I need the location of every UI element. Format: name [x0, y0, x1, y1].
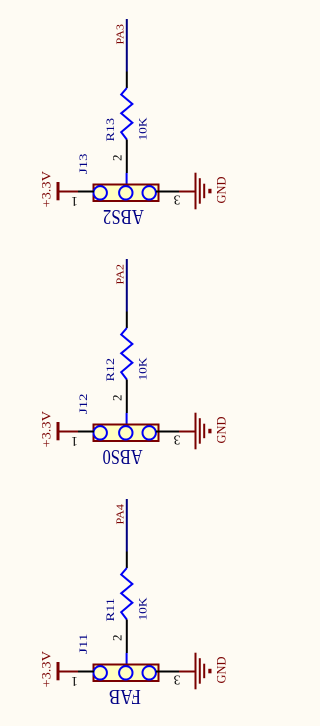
connector name ABS2 — [103, 205, 144, 229]
svg-text:R12: R12 — [103, 358, 117, 382]
resistor designator R11 — [103, 598, 117, 622]
svg-text:+3.3V: +3.3V — [39, 650, 54, 687]
svg-text:FAB: FAB — [109, 685, 141, 709]
pin number 1 — [71, 674, 78, 689]
svg-text:GND: GND — [214, 177, 229, 204]
ground net label GND — [214, 657, 229, 684]
svg-text:2: 2 — [110, 635, 125, 642]
wire J13 pin 3 to GND — [156, 191, 179, 193]
power port +3.3V label — [39, 170, 54, 207]
ground bar 2 — [199, 178, 201, 204]
power port +3.3V bar — [57, 662, 60, 680]
connector J11 body — [94, 665, 159, 682]
power port +3.3V label — [39, 410, 54, 447]
svg-text:3: 3 — [173, 192, 180, 207]
svg-text:10K: 10K — [136, 357, 150, 380]
connector name ABS0 — [103, 445, 143, 469]
power port +3.3V stub — [58, 431, 78, 433]
pin number 2 — [110, 155, 125, 162]
connector J13 pin 2 stub — [126, 173, 128, 186]
wire net PA4 to resistor R11 — [126, 499, 128, 552]
svg-text:ABS0: ABS0 — [103, 445, 143, 469]
ground net label GND — [214, 177, 229, 204]
svg-text:GND: GND — [214, 417, 229, 444]
connector J13 pad 2 — [119, 186, 132, 199]
connector J12 body — [94, 425, 159, 442]
svg-text:2: 2 — [110, 155, 125, 162]
ground bar 2 — [199, 658, 201, 684]
connector J12 pad 3 — [143, 426, 156, 439]
connector J13 body — [94, 185, 159, 202]
wire +3.3V to J12 pin 1 — [78, 431, 94, 433]
svg-text:2: 2 — [110, 395, 125, 402]
net label PA2 — [115, 264, 127, 285]
ground bar 1 — [195, 653, 197, 690]
ground bar 4 — [208, 189, 211, 194]
resistor R12 pin 1 — [126, 312, 128, 329]
resistor R13 pin 1 — [126, 72, 128, 89]
pin number 3 — [173, 432, 180, 447]
pin number 2 — [110, 635, 125, 642]
connector J11 pad 3 — [143, 666, 156, 679]
wire +3.3V to J13 pin 1 — [78, 191, 94, 193]
svg-text:10K: 10K — [136, 117, 150, 140]
connector designator J13 — [76, 154, 90, 175]
power port +3.3V stub — [58, 191, 78, 193]
resistor R13 — [121, 88, 132, 140]
ground bar 3 — [203, 424, 205, 439]
svg-text:3: 3 — [173, 432, 180, 447]
svg-text:R11: R11 — [103, 598, 117, 622]
resistor value 10K — [136, 357, 150, 380]
svg-text:J12: J12 — [76, 394, 90, 415]
power port +3.3V bar — [57, 422, 60, 440]
pin number 3 — [173, 672, 180, 687]
svg-text:ABS2: ABS2 — [103, 205, 144, 229]
resistor designator R12 — [103, 358, 117, 382]
ground bar 3 — [203, 664, 205, 679]
net label PA3 — [115, 23, 127, 44]
ground bar 2 — [199, 418, 201, 444]
connector J11 pad 1 — [94, 666, 107, 679]
resistor value 10K — [136, 597, 150, 620]
ground net label GND — [214, 417, 229, 444]
pin number 1 — [71, 194, 78, 209]
connector J11 pin 2 stub — [126, 653, 128, 666]
resistor R11 pin 1 — [126, 552, 128, 569]
wire net PA3 to resistor R13 — [126, 19, 128, 72]
svg-text:1: 1 — [71, 194, 78, 209]
power port +3.3V stub — [58, 671, 78, 673]
pin number 3 — [173, 192, 180, 207]
svg-text:R13: R13 — [103, 118, 117, 142]
connector J12 pad 2 — [119, 426, 132, 439]
svg-text:3: 3 — [173, 672, 180, 687]
resistor value 10K — [136, 117, 150, 140]
ground bar 3 — [203, 184, 205, 199]
resistor R11 pin 2 wire — [126, 620, 128, 654]
resistor R12 — [121, 328, 132, 380]
net label PA4 — [115, 503, 127, 524]
ground stub — [179, 431, 195, 433]
pin number 2 — [110, 395, 125, 402]
connector J13 pad 3 — [143, 186, 156, 199]
ground bar 4 — [208, 429, 211, 434]
resistor R12 pin 2 wire — [126, 380, 128, 414]
connector J13 pad 1 — [94, 186, 107, 199]
wire net PA2 to resistor R12 — [126, 259, 128, 312]
svg-text:PA2: PA2 — [115, 264, 127, 285]
connector designator J11 — [76, 634, 90, 655]
ground stub — [179, 671, 195, 673]
wire J11 pin 3 to GND — [156, 671, 179, 673]
svg-text:GND: GND — [214, 657, 229, 684]
svg-text:J13: J13 — [76, 154, 90, 175]
connector J12 pad 1 — [94, 426, 107, 439]
svg-text:1: 1 — [71, 674, 78, 689]
ground bar 4 — [208, 669, 211, 674]
connector designator J12 — [76, 394, 90, 415]
power port +3.3V bar — [57, 182, 60, 200]
connector J11 pad 2 — [119, 666, 132, 679]
pin number 1 — [71, 434, 78, 449]
svg-text:PA3: PA3 — [115, 23, 127, 44]
svg-text:+3.3V: +3.3V — [39, 170, 54, 207]
svg-text:1: 1 — [71, 434, 78, 449]
wire +3.3V to J11 pin 1 — [78, 671, 94, 673]
resistor designator R13 — [103, 118, 117, 142]
resistor R13 pin 2 wire — [126, 140, 128, 174]
connector J12 pin 2 stub — [126, 413, 128, 426]
svg-text:10K: 10K — [136, 597, 150, 620]
connector name FAB — [109, 685, 141, 709]
power port +3.3V label — [39, 650, 54, 687]
ground bar 1 — [195, 413, 197, 450]
svg-text:PA4: PA4 — [115, 503, 127, 524]
resistor R11 — [121, 568, 132, 620]
ground stub — [179, 191, 195, 193]
svg-text:J11: J11 — [76, 634, 90, 655]
svg-text:+3.3V: +3.3V — [39, 410, 54, 447]
ground bar 1 — [195, 173, 197, 210]
wire J12 pin 3 to GND — [156, 431, 179, 433]
